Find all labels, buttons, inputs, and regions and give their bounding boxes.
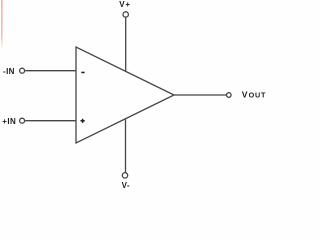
svg-text:V+: V+ [119,0,131,9]
svg-text:V: V [242,89,248,99]
svg-text:OUT: OUT [249,91,267,100]
svg-text:-IN: -IN [3,67,15,76]
svg-text:+IN: +IN [2,117,16,126]
svg-text:V-: V- [122,181,130,190]
